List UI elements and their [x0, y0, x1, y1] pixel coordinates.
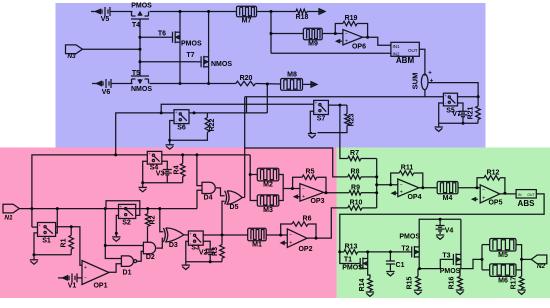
ground below S2 — [112, 237, 120, 241]
T3 top riser — [460, 219, 462, 251]
svg-text:S7: S7 — [317, 116, 326, 123]
transistor T2 (PMOS) — [399, 234, 420, 261]
op-amp OP3 — [300, 184, 325, 205]
transistor T4 (PMOS, horizontal) — [131, 3, 152, 30]
riser M7 node down — [270, 12, 272, 54]
riser to D4 input1 — [197, 155, 202, 186]
SUM block — [411, 71, 434, 90]
N1 horizontal wire — [19, 208, 197, 210]
wire M9 to OP6 — [322, 33, 343, 35]
memristor M2 — [257, 168, 279, 188]
S1 output wire to R1 and OP1 — [56, 227, 82, 266]
svg-text:T3: T3 — [442, 252, 450, 259]
voltage source V7 — [452, 110, 467, 119]
junction M2 input — [249, 173, 252, 176]
junction feedback riser — [30, 207, 33, 210]
R3 ground return — [221, 258, 223, 262]
svg-text:+: + — [289, 240, 292, 246]
svg-text:R7: R7 — [350, 150, 359, 157]
junction R1 — [70, 225, 73, 228]
svg-text:+: + — [482, 196, 485, 202]
wire M7 to R18 — [257, 11, 297, 13]
junction D1 riser — [104, 207, 107, 210]
memristor M9 — [303, 28, 322, 47]
svg-text:R11: R11 — [401, 165, 414, 172]
svg-text:R13: R13 — [345, 244, 358, 251]
resistor R20 — [236, 75, 256, 86]
ground below R14 — [366, 291, 374, 297]
svg-text:T5: T5 — [132, 70, 140, 77]
memristor M7 — [237, 6, 257, 24]
svg-text:−: − — [84, 276, 87, 282]
junction T7 gate — [139, 60, 142, 63]
ground below C1 — [386, 272, 394, 276]
svg-text:V1: V1 — [68, 283, 77, 290]
svg-text:OP3: OP3 — [310, 198, 324, 205]
svg-text:PMOS: PMOS — [399, 234, 420, 241]
junction D4 riser — [195, 153, 198, 156]
R22 ground return — [170, 132, 208, 140]
resistor R22 — [205, 113, 216, 132]
T7 drain wire to top rail — [207, 10, 210, 53]
M1 to OP2 wire — [266, 234, 287, 236]
svg-text:PMOS: PMOS — [131, 3, 152, 10]
ground below S7 — [308, 134, 316, 138]
T3 drain wire to M5 M6 — [461, 259, 482, 268]
svg-text:R1: R1 — [61, 238, 68, 247]
wire R20 to M8 — [255, 83, 280, 86]
ground below S5 — [435, 123, 443, 131]
D2 output to D3 — [156, 238, 163, 248]
D5 input2 riser from S3 wire — [222, 201, 225, 235]
junction R12 — [476, 186, 479, 189]
transistor T1 (PMOS) — [342, 255, 368, 272]
svg-text:IN1: IN1 — [393, 44, 401, 49]
svg-text:−: − — [289, 232, 292, 238]
riser D5 output net with R8 branch — [245, 97, 348, 198]
bottom rail wire T5 to R20 — [150, 83, 236, 85]
svg-text:OP2: OP2 — [298, 246, 312, 253]
wire OP6 to ABM IN1 — [363, 37, 391, 45]
svg-text:T7: T7 — [186, 52, 194, 59]
svg-text:R22: R22 — [209, 118, 216, 131]
node N2 connector — [531, 255, 547, 270]
OP4 output wire — [419, 186, 437, 189]
resistor R12 feedback — [477, 169, 505, 193]
svg-text:SUM: SUM — [411, 73, 420, 90]
svg-text:R9: R9 — [351, 185, 360, 192]
ground below S1 — [30, 255, 38, 264]
svg-text:PMOS: PMOS — [440, 268, 461, 275]
svg-text:S1: S1 — [42, 238, 51, 245]
junction C1 — [389, 250, 392, 253]
svg-text:R8: R8 — [351, 169, 360, 176]
svg-text:+: + — [302, 194, 305, 200]
resistor R19 feedback — [335, 15, 367, 37]
resistor R3 — [212, 235, 224, 258]
svg-text:OP1: OP1 — [93, 283, 107, 290]
resistor R15 — [407, 269, 421, 290]
svg-text:V2: V2 — [199, 249, 208, 256]
wire junction to D2 input1 — [105, 245, 143, 247]
svg-text:M5: M5 — [498, 252, 508, 259]
svg-text:M7: M7 — [242, 18, 252, 25]
link wire A to S6 net — [246, 97, 248, 113]
OP3 output wire through R9 — [324, 191, 349, 194]
junction bus R8 — [375, 175, 378, 178]
S6 ground loop — [168, 121, 174, 145]
junction R22 — [193, 111, 196, 114]
svg-text:R6: R6 — [303, 216, 312, 223]
resistor R13 — [340, 244, 406, 255]
svg-text:M9: M9 — [308, 41, 318, 48]
ground below R16 — [456, 289, 464, 295]
gate riser node N3 vertical — [139, 22, 141, 76]
V7 to ground rail — [462, 118, 465, 125]
S3 bottom loop to V2 — [186, 241, 222, 263]
M2 M3 output wires — [279, 175, 300, 201]
S2 over-top loop wire — [106, 201, 140, 216]
svg-text:R12: R12 — [487, 169, 500, 176]
memristor M1 — [248, 228, 267, 248]
voltage source V2 — [199, 247, 215, 256]
green subcircuit region — [337, 148, 550, 299]
svg-text:R17: R17 — [511, 276, 518, 289]
branch riser to S7 wire — [161, 104, 314, 113]
resistor R10 — [348, 200, 377, 211]
svg-text:+: + — [428, 71, 432, 77]
S3 output wire to M1 — [203, 234, 248, 236]
riser N1 wire to D3 input1 — [158, 207, 163, 232]
junction R2 — [146, 207, 149, 210]
resistor R7 — [348, 150, 377, 161]
transistor T5 (NMOS, horizontal) — [131, 70, 152, 93]
SUM bottom riser — [424, 89, 426, 96]
switch S1 riser — [56, 209, 58, 233]
svg-text:N1: N1 — [4, 214, 13, 221]
D1 output to D2 — [137, 251, 144, 261]
wire to N2 — [522, 258, 532, 260]
svg-text:M8: M8 — [287, 72, 297, 79]
junction V4 — [439, 218, 442, 221]
svg-text:M3: M3 — [263, 207, 273, 214]
junction N3 — [139, 48, 142, 51]
svg-text:R5: R5 — [306, 169, 315, 176]
svg-text:S6: S6 — [177, 125, 186, 132]
S5 left bottom wire — [439, 103, 444, 123]
junction R4 — [181, 153, 184, 156]
resistor R6 feedback — [281, 216, 316, 239]
V2 ground — [209, 255, 211, 261]
resistor R21 — [467, 97, 480, 124]
junction OP2 input — [279, 234, 282, 237]
junction S6 S7 riser — [114, 153, 117, 156]
logic gate D1 (NAND) — [121, 256, 136, 276]
M5 M6 output riser — [516, 245, 522, 277]
resistor R4 — [174, 155, 186, 183]
R23 ground return — [318, 126, 348, 133]
summing bus vertical — [376, 159, 378, 208]
svg-text:R10: R10 — [350, 200, 363, 207]
memristor M3 — [257, 195, 279, 214]
svg-text:−: − — [482, 188, 485, 194]
M5 M6 input riser — [482, 245, 490, 270]
switch S3 — [188, 231, 203, 252]
svg-text:D2: D2 — [146, 254, 155, 261]
svg-text:OP6: OP6 — [352, 43, 366, 50]
resistor R14 — [359, 272, 372, 291]
junction R5 — [291, 187, 294, 190]
riser to D1 input1 — [105, 209, 121, 259]
resistor R23 — [345, 105, 356, 126]
S4 bottom loop to V3 — [141, 161, 183, 184]
op-amp OP6 — [343, 30, 366, 51]
T6 drain wire to top rail — [179, 10, 182, 29]
node N1 connector — [3, 204, 19, 221]
junction T6 gate — [139, 36, 142, 39]
switch S1 — [38, 222, 56, 244]
R2 bottom riser to D2 — [147, 226, 149, 242]
T7 source wire to bottom rail — [207, 70, 210, 85]
node N3 connector — [66, 45, 141, 60]
M2 input wire — [250, 174, 257, 176]
svg-text:D5: D5 — [230, 204, 239, 211]
junction N2 — [520, 258, 523, 261]
svg-text:R19: R19 — [345, 15, 358, 22]
svg-text:R3: R3 — [212, 247, 219, 256]
memristor M6 — [490, 264, 516, 285]
junction M8 riser — [266, 83, 269, 86]
wire to M9 — [271, 33, 303, 35]
switch S7 — [314, 100, 329, 122]
ground below S6 — [166, 145, 174, 149]
svg-text:S2: S2 — [122, 220, 131, 227]
resistor R8 — [348, 169, 377, 180]
logic gate D4 (AND) — [202, 182, 215, 201]
svg-text:PMOS: PMOS — [181, 41, 202, 48]
svg-text:OP4: OP4 — [407, 194, 421, 201]
OP4 plus input marker — [392, 192, 398, 195]
svg-text:V6: V6 — [102, 89, 111, 96]
junction M7 output — [270, 10, 273, 13]
transistor T3 (PMOS) — [440, 251, 461, 275]
OP5 plus input marker — [472, 198, 478, 201]
ground below R17 — [517, 289, 525, 295]
svg-text:+: + — [84, 265, 87, 271]
T6 source wire to bottom rail — [179, 46, 182, 85]
ABM block — [391, 42, 419, 65]
op-amp OP5 — [480, 185, 502, 207]
svg-text:R16: R16 — [449, 276, 456, 289]
svg-text:V5: V5 — [101, 16, 110, 23]
OP6 plus input marker — [336, 40, 342, 43]
ground rail wire — [439, 122, 478, 124]
resistor R2 — [145, 209, 156, 227]
transistor T6 (PMOS) — [158, 29, 202, 48]
svg-text:ABM: ABM — [396, 56, 415, 65]
junction M9 tap — [270, 32, 273, 35]
svg-text:N2: N2 — [537, 263, 546, 270]
resistor R17 — [511, 276, 524, 289]
OP2 plus input marker — [281, 241, 287, 244]
T2 drain wire — [418, 259, 448, 270]
junction OP6 output — [366, 36, 369, 39]
logic gate D5 (XOR) — [225, 191, 243, 211]
svg-text:OP5: OP5 — [488, 200, 502, 207]
junction S1 riser — [56, 207, 59, 210]
top rail wire T4 to M7 — [150, 11, 237, 13]
OP2 output wire to R10 — [307, 208, 348, 240]
bus tap to OP4 — [375, 183, 398, 186]
S7 ground loop — [310, 111, 313, 132]
transistor T7 (NMOS) — [186, 52, 232, 70]
D3 output to S3 — [184, 234, 189, 236]
wire to T7 gate — [140, 61, 196, 63]
svg-text:+: + — [430, 79, 434, 85]
svg-text:R23: R23 — [349, 113, 356, 126]
svg-text:D3: D3 — [169, 242, 178, 249]
svg-text:M2: M2 — [263, 182, 273, 189]
ground below S3 loop — [182, 262, 190, 270]
blue subcircuit region — [56, 3, 486, 148]
svg-text:−: − — [400, 182, 403, 188]
SUM output wire — [429, 83, 479, 97]
svg-text:R18: R18 — [296, 14, 309, 21]
wire ABM OUT to SUM — [419, 49, 425, 76]
OP5 output to ABS — [500, 192, 516, 195]
svg-text:T1: T1 — [344, 257, 352, 264]
svg-text:T2: T2 — [401, 245, 409, 252]
svg-text:ABS: ABS — [518, 199, 536, 208]
junction OP6 minus input — [334, 32, 337, 35]
riser N1 wire to D4 input2 — [197, 190, 202, 208]
S1 R1 ground wire — [33, 233, 72, 256]
switch S4 — [147, 151, 162, 171]
riser M8 node to S6 wire — [266, 84, 268, 113]
svg-text:T6: T6 — [158, 31, 166, 38]
switch S6 — [174, 110, 189, 132]
N1 feedback riser — [32, 155, 147, 227]
voltage source V4 — [436, 219, 454, 239]
resistor R16 — [449, 269, 463, 290]
junction SUM feedback — [477, 95, 480, 98]
op-amp OP1 — [82, 261, 109, 290]
resistor R5 feedback — [293, 169, 326, 193]
op-amp OP4 — [398, 179, 422, 201]
S2 ground loop — [115, 215, 119, 236]
capacitor C1 — [386, 252, 405, 271]
M2 M3 input riser — [250, 155, 257, 201]
svg-text:R4: R4 — [174, 165, 181, 174]
memristor M5 — [490, 239, 516, 260]
V3 bottom wire — [166, 176, 168, 183]
resistor R11 feedback — [391, 165, 423, 188]
voltage source V1 — [58, 273, 82, 289]
svg-text:R20: R20 — [240, 75, 253, 82]
resistor R18 — [296, 9, 309, 21]
logic gate D3 (XOR) — [163, 228, 184, 249]
pink subcircuit region — [0, 148, 337, 299]
svg-text:−: − — [302, 186, 305, 192]
svg-text:R21: R21 — [467, 106, 474, 119]
wire V6 to T5 — [114, 83, 133, 85]
junction M5 M6 input — [481, 258, 484, 261]
ground below S4 loop — [139, 183, 147, 192]
R18 output arrow — [307, 9, 325, 15]
voltage source V6 — [92, 79, 114, 96]
memristor M4 — [437, 182, 458, 203]
svg-text:PMOS: PMOS — [342, 265, 363, 272]
svg-text:M6: M6 — [498, 278, 508, 285]
voltage source V3 — [156, 168, 172, 178]
wire to T6 gate — [140, 36, 167, 38]
D5 output wire — [242, 197, 244, 199]
svg-text:NMOS: NMOS — [211, 61, 232, 68]
junction S6 input — [160, 111, 163, 114]
junction D5 R3 riser — [221, 234, 224, 237]
T1 top to R13 wire — [366, 250, 369, 255]
svg-text:+: + — [400, 190, 403, 196]
logic gate D2 (AND) — [143, 242, 155, 261]
svg-text:OUT: OUT — [527, 193, 534, 197]
svg-text:D1: D1 — [123, 269, 132, 276]
junction bus R9 — [375, 191, 378, 194]
svg-text:C1: C1 — [396, 262, 405, 269]
svg-text:IN: IN — [518, 193, 522, 197]
svg-text:D4: D4 — [204, 195, 213, 202]
wire S4 output — [162, 154, 250, 156]
wire V5 to T4 — [113, 11, 133, 13]
switch S5 — [443, 93, 457, 115]
OP1 output to D1 — [109, 264, 121, 273]
long feedback wire to D5 riser — [245, 96, 478, 98]
svg-text:−: − — [345, 32, 348, 38]
D4 output to D5 — [216, 188, 225, 196]
svg-text:M4: M4 — [443, 195, 453, 202]
M8 output arrow — [303, 82, 318, 88]
resistor R1 — [61, 227, 74, 250]
op-amp OP2 — [287, 229, 312, 253]
ABS block — [516, 190, 536, 208]
S6 output wire to M8 node — [189, 112, 267, 114]
riser S7 node to R7 — [340, 105, 348, 158]
OP3 plus input marker — [294, 195, 300, 198]
svg-text:NMOS: NMOS — [131, 86, 152, 93]
svg-text:V7: V7 — [452, 111, 461, 118]
ground below R15 — [414, 289, 422, 295]
svg-text:N3: N3 — [67, 53, 76, 60]
svg-text:T4: T4 — [132, 22, 140, 29]
svg-text:+: + — [345, 38, 348, 44]
junction R13 — [338, 250, 341, 253]
T2 source riser to V4 rail — [419, 219, 461, 243]
riser from pink N1 net — [116, 113, 174, 155]
svg-text:V3: V3 — [156, 171, 165, 178]
memristor M8 — [281, 72, 303, 91]
junction R7 riser — [338, 104, 341, 107]
junction D2 wire — [104, 244, 107, 247]
svg-text:R2: R2 — [149, 215, 156, 224]
S7 output wire — [328, 104, 347, 106]
junction OP4 input — [389, 183, 392, 186]
switch S2 — [119, 204, 136, 226]
svg-text:V4: V4 — [445, 228, 454, 235]
S5 right to V7 — [458, 103, 464, 110]
svg-text:R14: R14 — [359, 278, 366, 291]
svg-text:M1: M1 — [252, 242, 262, 249]
svg-text:OUT: OUT — [408, 48, 418, 53]
ABS output feedback wire — [340, 194, 544, 264]
